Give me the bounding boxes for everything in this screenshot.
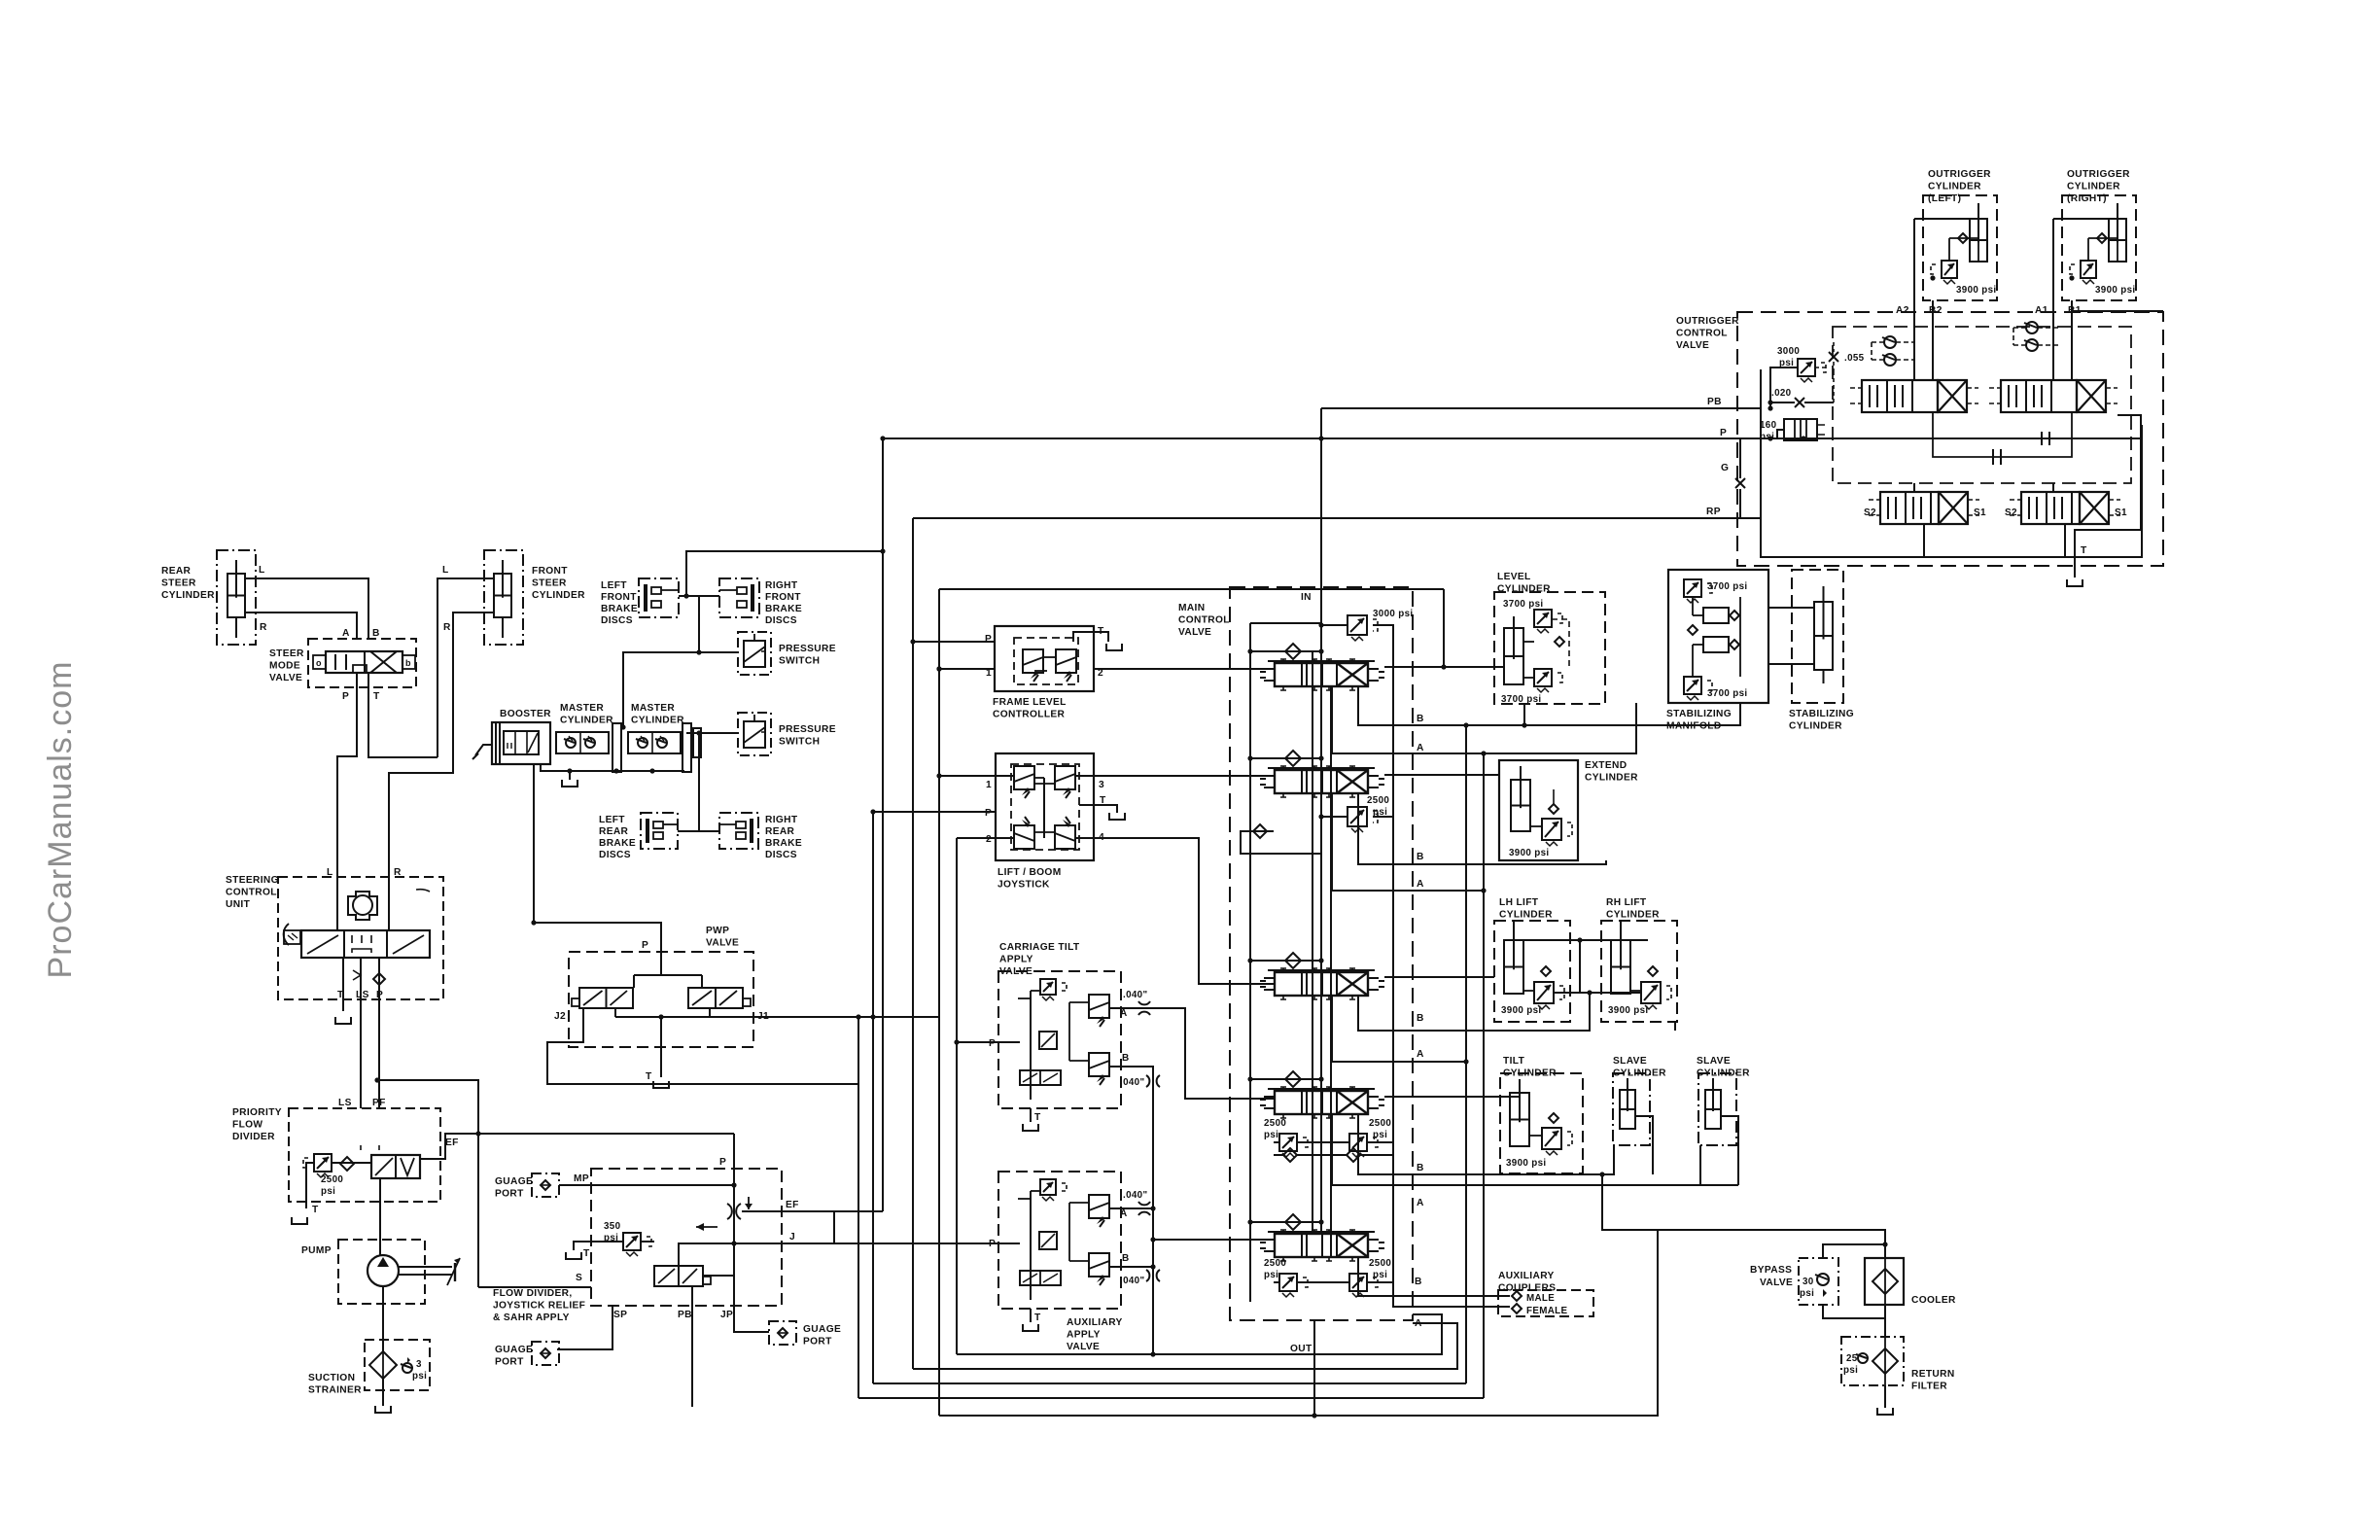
svg-text:psi: psi bbox=[1264, 1130, 1278, 1140]
wire between rear brake discs bbox=[678, 830, 719, 832]
svg-text:B2: B2 bbox=[1929, 305, 1942, 316]
svg-text:GUAGE: GUAGE bbox=[803, 1324, 841, 1335]
svg-text:UNIT: UNIT bbox=[226, 899, 251, 910]
relief valve 2500 psi pair left bbox=[1264, 1258, 1321, 1297]
wire supply riser x908 bbox=[882, 438, 884, 1211]
wire bypass branch bbox=[1823, 1242, 1888, 1318]
svg-text:A1: A1 bbox=[2035, 305, 2048, 316]
svg-text:psi: psi bbox=[1373, 1270, 1387, 1280]
svg-text:3900 psi: 3900 psi bbox=[1956, 285, 1996, 296]
wire return filter to tank bbox=[1884, 1385, 1886, 1408]
check valve feed spool 1 bbox=[1247, 644, 1323, 663]
svg-text:ProCarManuals.com: ProCarManuals.com bbox=[42, 661, 79, 979]
right rear brake discs bbox=[719, 813, 802, 860]
svg-text:3700 psi: 3700 psi bbox=[1503, 599, 1543, 610]
svg-text:A: A bbox=[1120, 1208, 1128, 1219]
main control valve IN riser bbox=[1301, 408, 1321, 603]
svg-text:DIVIDER: DIVIDER bbox=[232, 1132, 275, 1142]
svg-text:JOYSTICK RELIEF: JOYSTICK RELIEF bbox=[493, 1301, 585, 1312]
wire slave cylinder 2 internal drop bbox=[1700, 1116, 1738, 1185]
left rear brake discs bbox=[599, 813, 678, 860]
wire return line to cooler bbox=[1658, 1230, 1885, 1258]
svg-text:DISCS: DISCS bbox=[601, 615, 633, 626]
orifice .040 auxiliary B bbox=[1120, 1270, 1160, 1286]
wire master cylinder 2 to rear pressure switch bbox=[686, 730, 738, 735]
check valve pair left bbox=[1872, 336, 1914, 366]
svg-text:LIFT / BOOM: LIFT / BOOM bbox=[997, 867, 1062, 878]
right front brake discs bbox=[719, 578, 802, 626]
svg-text:CYLINDER: CYLINDER bbox=[1928, 182, 1981, 192]
svg-text:CYLINDER: CYLINDER bbox=[161, 590, 215, 601]
valve 160 psi bbox=[1760, 419, 1825, 442]
wire spool1 right port to level cylinder bbox=[1384, 666, 1504, 668]
svg-text:VALVE: VALVE bbox=[1676, 340, 1709, 351]
outrigger lower spool right bbox=[2005, 492, 2127, 524]
svg-text:PORT: PORT bbox=[495, 1189, 524, 1200]
suction strainer bbox=[308, 1340, 430, 1396]
svg-text:RP: RP bbox=[1706, 507, 1721, 517]
svg-text:BOOSTER: BOOSTER bbox=[500, 709, 551, 719]
svg-text:B: B bbox=[1417, 1013, 1424, 1024]
svg-text:3900 psi: 3900 psi bbox=[1501, 1005, 1541, 1016]
svg-text:.040": .040" bbox=[1120, 1276, 1144, 1286]
svg-text:FRONT: FRONT bbox=[601, 592, 637, 603]
wire manifold to stabilizing cylinder bottom bbox=[1768, 663, 1814, 665]
svg-text:CYLINDER: CYLINDER bbox=[532, 590, 585, 601]
svg-text:REAR: REAR bbox=[161, 566, 192, 577]
wire FLC port 2 to MCV spool 1 bbox=[1094, 668, 1275, 670]
svg-text:T: T bbox=[337, 990, 344, 1000]
svg-text:A: A bbox=[342, 628, 350, 639]
svg-text:3700 psi: 3700 psi bbox=[1707, 581, 1747, 592]
svg-text:.040": .040" bbox=[1120, 1077, 1144, 1088]
wire front steer R down to R node bbox=[389, 612, 494, 877]
svg-text:160: 160 bbox=[1760, 420, 1777, 431]
wire lift cylinders rod interconnect bbox=[1523, 937, 1648, 993]
wire joystick T drain bbox=[1079, 805, 1125, 820]
main control valve label bbox=[1178, 603, 1230, 638]
svg-text:MASTER: MASTER bbox=[560, 703, 604, 714]
svg-text:STEER: STEER bbox=[161, 578, 196, 589]
wire lift cylinders counterbalance interconnect bbox=[1554, 990, 1641, 995]
stabilizing manifold bbox=[1666, 570, 1768, 732]
wire slave line to return riser bbox=[1599, 1172, 1658, 1230]
wire cooler to return filter bbox=[1884, 1305, 1886, 1337]
svg-text:AUXILIARY: AUXILIARY bbox=[1498, 1271, 1555, 1281]
wire J line through relief bbox=[641, 1211, 834, 1276]
svg-text:REAR: REAR bbox=[765, 826, 795, 837]
svg-text:P: P bbox=[989, 1038, 996, 1049]
svg-text:CYLINDER: CYLINDER bbox=[1585, 773, 1638, 784]
main control valve OUT bbox=[1290, 1320, 1314, 1416]
svg-text:3: 3 bbox=[1099, 780, 1104, 790]
svg-text:BYPASS: BYPASS bbox=[1750, 1265, 1792, 1276]
svg-text:B: B bbox=[1122, 1253, 1130, 1264]
svg-text:PRESSURE: PRESSURE bbox=[779, 644, 836, 654]
orifice .040 carriage A bbox=[1123, 990, 1150, 1015]
drain below carriage tilt apply valve bbox=[1023, 1124, 1038, 1131]
drain below pwp valve bbox=[653, 1081, 669, 1088]
wire vertical x883 bbox=[857, 1017, 859, 1398]
guage port SP bbox=[495, 1342, 559, 1368]
svg-text:3700 psi: 3700 psi bbox=[1501, 694, 1541, 705]
svg-text:STEERING: STEERING bbox=[226, 875, 279, 886]
steer mode valve bbox=[269, 628, 416, 702]
svg-text:PRESSURE: PRESSURE bbox=[779, 724, 836, 735]
svg-text:G: G bbox=[1721, 463, 1729, 473]
svg-text:CYLINDER: CYLINDER bbox=[2067, 182, 2120, 192]
svg-text:3900 psi: 3900 psi bbox=[1506, 1158, 1546, 1169]
svg-text:2500: 2500 bbox=[1369, 1118, 1391, 1129]
svg-text:J2: J2 bbox=[554, 1011, 566, 1022]
wire spool4 A trunk bbox=[1332, 1114, 1700, 1208]
svg-text:VALVE: VALVE bbox=[706, 938, 739, 949]
wire master cylinder 1 to front pressure switch bbox=[620, 649, 738, 729]
wire joystick P supply bbox=[870, 809, 996, 814]
svg-text:P: P bbox=[1720, 428, 1727, 438]
wire auxiliary P supply bbox=[834, 1242, 1020, 1244]
check valve feed spool 4 bbox=[1247, 1071, 1323, 1091]
svg-text:STABILIZING: STABILIZING bbox=[1789, 709, 1854, 719]
svg-text:MANIFOLD: MANIFOLD bbox=[1666, 721, 1722, 732]
svg-text:B: B bbox=[1417, 1163, 1424, 1173]
svg-text:T: T bbox=[373, 691, 380, 702]
svg-text:STEER: STEER bbox=[269, 648, 304, 659]
outrigger spool A2 B2 bbox=[1850, 380, 1978, 412]
svg-text:P: P bbox=[985, 808, 992, 819]
wire booster pilot to PWP valve bbox=[531, 764, 702, 988]
svg-text:psi: psi bbox=[412, 1371, 427, 1382]
svg-text:DISCS: DISCS bbox=[765, 850, 797, 860]
svg-text:VALVE: VALVE bbox=[269, 673, 302, 683]
svg-text:2500: 2500 bbox=[1369, 1258, 1391, 1269]
svg-text:BRAKE: BRAKE bbox=[599, 838, 636, 849]
svg-text:CYLINDER: CYLINDER bbox=[1789, 721, 1842, 732]
outrigger spool A1 B1 bbox=[1989, 380, 2117, 412]
svg-text:.040": .040" bbox=[1123, 990, 1147, 1000]
svg-text:RIGHT: RIGHT bbox=[765, 580, 798, 591]
wire rear pressure circuit riser bbox=[698, 733, 700, 831]
svg-text:LEFT: LEFT bbox=[599, 815, 625, 825]
wire P trunk to outrigger valve bbox=[880, 436, 1761, 440]
drain below return filter bbox=[1877, 1408, 1893, 1415]
drain below steering control unit T bbox=[335, 1017, 351, 1024]
pump bbox=[301, 1240, 460, 1304]
svg-text:GUAGE: GUAGE bbox=[495, 1176, 533, 1187]
svg-text:S2: S2 bbox=[2005, 507, 2017, 518]
return filter bbox=[1841, 1337, 1955, 1392]
drain below priority flow divider bbox=[292, 1217, 307, 1224]
svg-text:A: A bbox=[1417, 879, 1424, 890]
svg-text:SWITCH: SWITCH bbox=[779, 656, 820, 667]
outrigger T port bbox=[2075, 545, 2087, 577]
wire return trunk y1456 bbox=[939, 1230, 1658, 1418]
wire A2 riser bbox=[1896, 219, 1914, 380]
svg-text:STEER: STEER bbox=[532, 578, 567, 589]
outrigger control valve boundary bbox=[1737, 312, 2163, 566]
front steer cylinder bbox=[442, 550, 585, 645]
svg-text:2500: 2500 bbox=[1367, 795, 1389, 806]
svg-text:3000: 3000 bbox=[1777, 346, 1800, 357]
wire FLC port 1 bbox=[936, 666, 995, 671]
svg-text:CYLINDER: CYLINDER bbox=[631, 716, 684, 726]
wire spool2 A trunk bbox=[1332, 794, 1487, 893]
svg-text:B: B bbox=[1415, 1277, 1422, 1287]
svg-text:T: T bbox=[312, 1205, 319, 1215]
svg-text:GUAGE: GUAGE bbox=[495, 1345, 533, 1355]
svg-text:B: B bbox=[1417, 852, 1424, 862]
wire bottom trunk y1423 bbox=[873, 1382, 1466, 1384]
wire RP trunk to outrigger valve bbox=[913, 517, 1761, 519]
svg-text:CONTROLLER: CONTROLLER bbox=[993, 710, 1066, 720]
auxiliary apply valve bbox=[989, 1172, 1130, 1352]
relief valve 2500 psi pair left bbox=[1264, 1118, 1321, 1157]
svg-text:T: T bbox=[1034, 1312, 1041, 1323]
wire pwp J2 output bbox=[547, 1008, 858, 1084]
wire spool1 A trunk bbox=[1332, 686, 1636, 753]
wire pwp J1 output bbox=[615, 1008, 939, 1020]
svg-text:T: T bbox=[583, 1248, 590, 1259]
slave cylinder 2 bbox=[1697, 1056, 1750, 1145]
wire steer valve T to front steer node bbox=[368, 673, 437, 757]
svg-text:MALE: MALE bbox=[1526, 1293, 1555, 1304]
wire vertical x966 bbox=[936, 589, 1446, 1416]
svg-text:T: T bbox=[646, 1071, 652, 1082]
svg-text:.055: .055 bbox=[1844, 353, 1865, 364]
wire P riser and EF branch bbox=[696, 1134, 883, 1325]
svg-text:R: R bbox=[443, 622, 451, 633]
main control valve spool 4 bbox=[1260, 1087, 1384, 1118]
bypass valve bbox=[1750, 1258, 1838, 1305]
svg-text:T: T bbox=[2081, 545, 2087, 556]
lift boom joystick bbox=[985, 753, 1106, 891]
svg-text:OUTRIGGER: OUTRIGGER bbox=[1928, 169, 1991, 180]
svg-text:VALVE: VALVE bbox=[1067, 1342, 1100, 1352]
svg-text:PUMP: PUMP bbox=[301, 1245, 332, 1256]
level cylinder bbox=[1494, 572, 1605, 705]
relief valve 2500 psi pair right bbox=[1321, 1258, 1393, 1297]
frame level controller bbox=[985, 626, 1104, 720]
wire spool2 B trunk bbox=[1358, 794, 1606, 864]
left front brake discs bbox=[601, 578, 679, 626]
LH lift cylinder bbox=[1494, 897, 1570, 1022]
svg-text:DISCS: DISCS bbox=[599, 850, 631, 860]
orifice .040 auxiliary A bbox=[1123, 1190, 1150, 1215]
svg-text:MASTER: MASTER bbox=[631, 703, 675, 714]
wire manifold to stabilizing cylinder top bbox=[1768, 607, 1814, 609]
relief valve 3000 psi bbox=[1318, 609, 1413, 667]
svg-text:J: J bbox=[789, 1232, 795, 1242]
wire spool3 A trunk bbox=[1332, 996, 1469, 1065]
svg-text:IN: IN bbox=[1301, 592, 1312, 603]
wire FLC P supply bbox=[913, 641, 995, 643]
wire pump suction to strainer bbox=[382, 1286, 384, 1353]
svg-text:psi: psi bbox=[321, 1186, 335, 1197]
main control valve spool 1 bbox=[1260, 659, 1384, 690]
svg-text:L: L bbox=[259, 565, 265, 576]
svg-text:JP: JP bbox=[720, 1310, 733, 1320]
drain at 350 psi relief bbox=[566, 1252, 581, 1259]
wire priority PF junction to EF bbox=[374, 1077, 480, 1287]
stabilizing cylinder bbox=[1789, 570, 1854, 732]
main control valve internal buses bbox=[1250, 587, 1393, 1307]
wire MP guage line bbox=[559, 1182, 737, 1187]
main control valve spool 5 bbox=[1260, 1230, 1384, 1261]
svg-text:COUPLERS: COUPLERS bbox=[1498, 1283, 1556, 1294]
svg-text:3900 psi: 3900 psi bbox=[1608, 1005, 1648, 1016]
wire PB trunk to outrigger valve bbox=[1321, 407, 1761, 409]
drain below auxiliary apply valve bbox=[1023, 1324, 1038, 1331]
svg-text:2500: 2500 bbox=[1264, 1258, 1286, 1269]
svg-text:FRONT: FRONT bbox=[532, 566, 568, 577]
main control valve spool 3 bbox=[1260, 968, 1384, 999]
svg-text:LEFT: LEFT bbox=[601, 580, 627, 591]
wire A1 riser bbox=[2035, 219, 2053, 380]
pressure switch front bbox=[738, 632, 836, 675]
svg-text:350: 350 bbox=[604, 1221, 621, 1232]
svg-text:P: P bbox=[342, 691, 349, 702]
svg-text:OUT: OUT bbox=[1290, 1344, 1312, 1354]
orifice .040 carriage B bbox=[1120, 1075, 1160, 1088]
svg-text:FEMALE: FEMALE bbox=[1526, 1306, 1567, 1316]
steering control unit bbox=[226, 867, 443, 1108]
carriage tilt apply valve bbox=[989, 942, 1130, 1123]
relief valve 2500 psi pair right bbox=[1321, 1118, 1393, 1157]
wire spool4 right port to tilt cylinder bbox=[1384, 1093, 1520, 1097]
svg-text:CARRIAGE TILT: CARRIAGE TILT bbox=[999, 942, 1080, 953]
svg-text:B: B bbox=[1122, 1053, 1130, 1064]
wire auxiliary B line bbox=[1109, 1264, 1156, 1269]
relief valve 2500 psi spool 2 bbox=[1318, 795, 1393, 832]
check valve feed spool 2 bbox=[1247, 751, 1323, 770]
svg-text:3700 psi: 3700 psi bbox=[1707, 688, 1747, 699]
svg-text:L: L bbox=[442, 565, 449, 576]
svg-text:RETURN: RETURN bbox=[1911, 1369, 1955, 1380]
svg-text:S2: S2 bbox=[1864, 507, 1876, 518]
svg-text:CYLINDER: CYLINDER bbox=[1606, 910, 1660, 921]
wire level cylinder to B trunk bbox=[1522, 704, 1526, 728]
svg-text:S: S bbox=[576, 1273, 582, 1283]
wire joystick port 3 to MCV spool 2 bbox=[1075, 775, 1275, 777]
svg-text:LH LIFT: LH LIFT bbox=[1499, 897, 1539, 908]
svg-text:PRIORITY: PRIORITY bbox=[232, 1107, 282, 1118]
wire front pressure circuit riser bbox=[698, 596, 700, 652]
wire JP riser to guage port bbox=[734, 1306, 769, 1332]
svg-text:CONTROL: CONTROL bbox=[226, 888, 277, 898]
wire vertical x898 bbox=[872, 812, 874, 1383]
svg-text:MODE: MODE bbox=[269, 661, 300, 672]
wire bottom trunk y1393 bbox=[957, 1314, 1442, 1354]
svg-text:OUTRIGGER: OUTRIGGER bbox=[2067, 169, 2130, 180]
wire front brakes to supply riser bbox=[686, 548, 886, 596]
wire SP port to guage bbox=[557, 1306, 612, 1349]
wire carriage tilt P supply bbox=[957, 1041, 1020, 1043]
wire spool5 A to auxiliary couplers female bbox=[1393, 1269, 1510, 1329]
svg-text:B: B bbox=[372, 628, 380, 639]
wire PB riser down bbox=[691, 1286, 693, 1407]
svg-text:CYLINDER: CYLINDER bbox=[1499, 910, 1553, 921]
svg-text:STABILIZING: STABILIZING bbox=[1666, 709, 1732, 719]
svg-text:L: L bbox=[327, 867, 333, 878]
svg-text:AUXILIARY: AUXILIARY bbox=[1067, 1317, 1123, 1328]
priority flow divider bbox=[232, 1098, 440, 1215]
svg-text:.040": .040" bbox=[1123, 1190, 1147, 1201]
wire spool3 right port to LH lift cylinder bbox=[1384, 976, 1494, 978]
svg-text:SUCTION: SUCTION bbox=[308, 1373, 355, 1383]
outrigger control valve label bbox=[1676, 316, 1739, 351]
svg-text:P: P bbox=[985, 634, 992, 645]
pwp valve bbox=[554, 926, 769, 1082]
svg-text:b: b bbox=[405, 658, 411, 668]
wire auxiliary A line bbox=[1109, 1206, 1156, 1210]
wire B1 riser bbox=[2068, 300, 2082, 380]
check valve loop spool 2 bbox=[1241, 824, 1321, 854]
svg-text:FILTER: FILTER bbox=[1911, 1382, 1947, 1392]
svg-text:PB: PB bbox=[678, 1310, 692, 1320]
tilt cylinder bbox=[1500, 1056, 1583, 1173]
svg-text:3000 psi: 3000 psi bbox=[1373, 609, 1413, 619]
svg-text:RIGHT: RIGHT bbox=[765, 815, 798, 825]
wire vertical x984 bbox=[954, 838, 959, 1354]
svg-text:SLAVE: SLAVE bbox=[1613, 1056, 1647, 1067]
wire FLC T to tank bbox=[1073, 632, 1122, 650]
wire EF line from priority divider bbox=[420, 1134, 734, 1159]
svg-text:MP: MP bbox=[574, 1173, 589, 1184]
svg-text:A: A bbox=[1417, 1049, 1424, 1060]
main control valve boundary bbox=[1230, 587, 1413, 1320]
wire spool2 right port to extend cylinder bbox=[1384, 774, 1499, 776]
check valves below spool 4 bbox=[1274, 1148, 1393, 1162]
svg-text:PB: PB bbox=[1707, 397, 1722, 407]
drain below suction strainer bbox=[375, 1406, 391, 1413]
wire between front brake discs bbox=[679, 593, 719, 598]
wire RH lift box outlet bbox=[1674, 1022, 1676, 1031]
svg-text:3900 psi: 3900 psi bbox=[1509, 848, 1549, 858]
svg-text:2500: 2500 bbox=[321, 1174, 343, 1185]
orifice G bbox=[1735, 438, 1745, 518]
svg-text:RH LIFT: RH LIFT bbox=[1606, 897, 1647, 908]
wire spool3 B trunk bbox=[1358, 993, 1590, 1031]
svg-text:o: o bbox=[316, 658, 322, 668]
svg-text:PORT: PORT bbox=[495, 1357, 524, 1368]
svg-text:A: A bbox=[1415, 1318, 1422, 1329]
svg-text:30: 30 bbox=[1802, 1277, 1814, 1287]
svg-text:& SAHR APPLY: & SAHR APPLY bbox=[493, 1312, 570, 1323]
svg-text:A: A bbox=[1417, 743, 1424, 753]
svg-text:DISCS: DISCS bbox=[765, 615, 797, 626]
svg-text:P: P bbox=[719, 1157, 726, 1168]
wire joystick port 1 bbox=[939, 775, 1014, 777]
outrigger control valve inner frame bbox=[1761, 369, 2142, 557]
wire carriage tilt A to MCV spool 4 bbox=[1109, 1008, 1275, 1099]
svg-text:MAIN: MAIN bbox=[1178, 603, 1205, 613]
svg-text:BRAKE: BRAKE bbox=[765, 838, 802, 849]
svg-text:2500: 2500 bbox=[1264, 1118, 1286, 1129]
outrigger lower spool left bbox=[1864, 492, 1986, 524]
svg-text:1: 1 bbox=[986, 780, 992, 790]
svg-text:P: P bbox=[642, 940, 648, 951]
check valve pair right bbox=[2013, 322, 2060, 351]
svg-text:R: R bbox=[260, 622, 267, 633]
svg-text:A2: A2 bbox=[1896, 305, 1909, 316]
extend cylinder bbox=[1499, 760, 1638, 860]
drain below outrigger valve bbox=[2067, 579, 2082, 586]
wire spool4 B trunk bbox=[1358, 1114, 1614, 1174]
wire B2 riser bbox=[1929, 300, 1942, 380]
svg-text:JOYSTICK: JOYSTICK bbox=[997, 880, 1050, 891]
cooler bbox=[1865, 1258, 1956, 1306]
wire booster-master cylinder bottom rail bbox=[541, 764, 684, 774]
